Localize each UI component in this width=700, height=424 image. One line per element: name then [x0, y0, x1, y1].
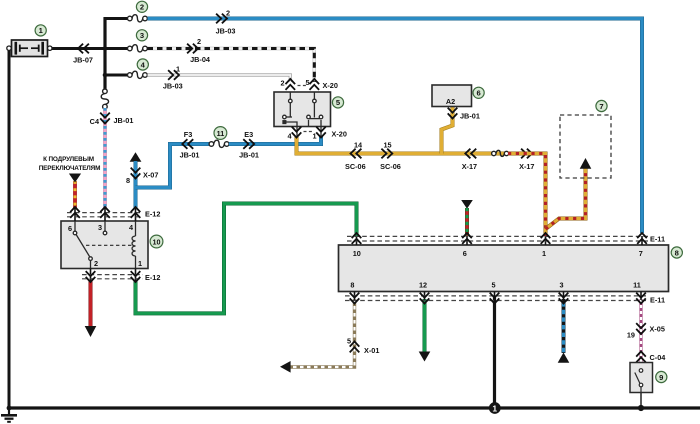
ground node 1 [489, 402, 501, 414]
wire white fuse F4 to X-20 pin2 [148, 75, 291, 82]
svg-text:C4: C4 [90, 117, 100, 126]
junction dot at left ground corner [7, 406, 12, 411]
svg-text:7: 7 [639, 249, 643, 258]
svg-text:10: 10 [153, 237, 161, 246]
circled number 3 [136, 30, 147, 41]
wire blue feed fuse F2 to pin7 (top run) [148, 19, 643, 234]
fuse F4 symbol [128, 71, 148, 78]
circled number 10 [150, 235, 163, 248]
svg-text:3: 3 [559, 281, 563, 290]
connector C-04 chevron [636, 352, 646, 363]
arrow below pin3 wire (points up) [558, 353, 570, 363]
svg-text:X-17: X-17 [519, 162, 534, 171]
wire pink-white stripe module pin11 to switch 9 [639, 299, 642, 363]
sensor A2 box 6 [432, 85, 472, 107]
arrow below green pin12 wire (points down) [419, 352, 431, 362]
svg-text:E-12: E-12 [145, 273, 160, 282]
svg-text:2: 2 [226, 9, 230, 18]
wire yellow-red stripe X-17 to module pin1 [508, 154, 546, 237]
dashed box 7 [560, 115, 611, 178]
svg-text:1: 1 [492, 403, 497, 413]
svg-text:X-07: X-07 [143, 171, 158, 180]
svg-text:JB-03: JB-03 [163, 82, 183, 91]
junction node at trunk/F3 [103, 46, 108, 51]
svg-text:К ПОДРУЛЕВЫМ: К ПОДРУЛЕВЫМ [43, 156, 94, 163]
connector X-17 right chevron [521, 149, 532, 159]
wire red relay pin2 to arrow [89, 280, 93, 327]
connector F3 JB-01 chevron [182, 139, 193, 149]
svg-text:1: 1 [312, 132, 316, 141]
fuse below trunk (C4 feed) [101, 89, 108, 109]
svg-text:SC-06: SC-06 [345, 162, 366, 171]
connector X-20 bottom row [292, 127, 302, 138]
svg-text:JB-04: JB-04 [190, 55, 211, 64]
circled number 9 [656, 371, 667, 382]
svg-text:JB-01: JB-01 [180, 151, 200, 160]
svg-text:1: 1 [176, 65, 180, 74]
switch 9 internals [635, 369, 643, 393]
circled number 11 [214, 127, 227, 140]
arrow X-07 off-page (points up) [130, 152, 142, 162]
module 8 box [339, 245, 669, 292]
wire branch to fuse F2 [104, 17, 129, 20]
wire branch to fuse F4 [105, 74, 128, 77]
svg-text:X-01: X-01 [364, 346, 379, 355]
connector 2 JB-04 chevron [187, 44, 198, 54]
svg-text:JB-03: JB-03 [216, 27, 236, 36]
svg-text:2: 2 [94, 259, 98, 268]
fuse 11 symbol [209, 140, 229, 147]
connector 19 X-05 chevron [636, 323, 646, 334]
arrow below relay pin2 (points down) [85, 326, 97, 337]
svg-text:8: 8 [350, 281, 354, 290]
switch 9 box [630, 363, 653, 393]
arrow into dashed box (points up) [580, 158, 592, 169]
wire branch to fuse F3 [105, 47, 128, 50]
switch 5 internals [283, 92, 323, 136]
junction node at trunk/F4 [103, 73, 108, 78]
wire battery positive to fuse trunk JB-07 [50, 47, 105, 50]
connector E-12 bottom row [82, 274, 143, 276]
svg-text:JB-01: JB-01 [460, 112, 480, 121]
svg-text:11: 11 [633, 281, 641, 290]
ignition switch unit 5 box [274, 92, 331, 127]
svg-text:3: 3 [98, 223, 102, 232]
svg-text:9: 9 [659, 373, 663, 382]
svg-text:2: 2 [140, 3, 144, 12]
wire blue E3 to X-20 pin1 [229, 136, 321, 144]
svg-text:E-12: E-12 [145, 210, 160, 219]
svg-text:10: 10 [353, 249, 361, 258]
connector 5 X-01 chevron [350, 342, 360, 353]
svg-text:E-11: E-11 [650, 235, 665, 244]
svg-text:ПЕРЕКЛЮЧАТЕЛЯМ: ПЕРЕКЛЮЧАТЕЛЯМ [39, 165, 101, 172]
svg-text:12: 12 [419, 281, 427, 290]
battery G1 box [12, 40, 48, 57]
wire switch 9 to ground bus [640, 390, 642, 408]
circled number 2 [136, 1, 147, 12]
svg-text:11: 11 [217, 129, 225, 138]
wire tan-white stripe module pin8 to left arrow [290, 299, 355, 367]
connector A2 JB-01 chevron [448, 108, 458, 119]
svg-text:5: 5 [305, 78, 309, 87]
wire red-yellow stripe to steering column switches [73, 181, 77, 209]
svg-text:E-11: E-11 [650, 296, 665, 305]
svg-text:JB-07: JB-07 [73, 56, 93, 65]
wire battery negative to ground (left edge) [8, 50, 11, 409]
wire green module pin12 down [423, 299, 427, 352]
arrow at end of tan wire (points left) [280, 361, 291, 373]
svg-text:C-04: C-04 [650, 353, 667, 362]
circled number 7 [596, 100, 607, 111]
svg-text:6: 6 [476, 89, 480, 98]
wire green relay pin1 to module pin10 [136, 204, 357, 314]
svg-text:5: 5 [347, 337, 351, 346]
connector JB-07 chevron [78, 44, 89, 54]
connector 2 JB-03 chevron on blue wire [216, 14, 227, 24]
arrow above module pin6 (points down) [461, 200, 473, 209]
svg-text:6: 6 [463, 249, 467, 258]
svg-text:7: 7 [599, 102, 603, 111]
wire yellow from A2 JB-01 down [442, 107, 453, 154]
circled number 4 [137, 59, 148, 70]
connector 15 SC-06 chevron [381, 149, 392, 159]
wire blue-black stripe module pin3 down [562, 299, 566, 353]
svg-text:JB-01: JB-01 [114, 116, 134, 125]
wire red-green stripe to module pin6 [465, 208, 469, 236]
svg-text:SC-06: SC-06 [380, 162, 401, 171]
wire black module pin5 to ground node [493, 296, 496, 406]
circled number 8 [671, 247, 682, 258]
wire blue X-07 stub to relay pin4 [134, 161, 138, 209]
svg-text:6: 6 [68, 224, 72, 233]
connector E-12 top row [67, 212, 143, 214]
svg-text:3: 3 [140, 31, 144, 40]
fuse F3 symbol [128, 45, 148, 52]
svg-text:JB-01: JB-01 [239, 151, 259, 160]
svg-text:19: 19 [627, 331, 635, 340]
circled number 6 [473, 87, 484, 98]
wire pink-blue stripe C4 JB-01 to relay pin3 [103, 108, 107, 209]
svg-text:8: 8 [675, 248, 679, 257]
svg-text:2: 2 [280, 79, 284, 88]
battery terminal circles [7, 46, 11, 50]
connector X-17 left chevron [465, 149, 476, 159]
connector E-11 bottom row [345, 295, 648, 297]
svg-text:8: 8 [126, 176, 130, 185]
wire white-black stripe fuse F3 to X-20 pin5 [148, 49, 315, 83]
svg-text:F3: F3 [184, 130, 193, 139]
connector E-11 top row [347, 235, 648, 237]
connector X-07 chevron [131, 168, 141, 179]
circled number 1 [35, 25, 46, 36]
circled number 5 [332, 97, 343, 108]
wire blue branch to fuse 11 line [136, 144, 210, 188]
wire fuse trunk vertical [103, 17, 106, 89]
svg-text:14: 14 [354, 141, 363, 150]
svg-text:X-20: X-20 [323, 81, 338, 90]
connector 1 JB-03 chevron [168, 70, 179, 80]
svg-text:X-05: X-05 [650, 325, 665, 334]
relay pin stubs black [75, 208, 136, 281]
svg-text:X-20: X-20 [332, 130, 347, 139]
connector E3 JB-01 chevron [243, 139, 254, 149]
svg-text:5: 5 [491, 281, 495, 290]
svg-text:15: 15 [383, 141, 391, 150]
connector C4 JB-01 chevron [100, 113, 110, 124]
svg-text:X-17: X-17 [462, 162, 477, 171]
connector 14 SC-06 chevron [351, 149, 362, 159]
svg-text:2: 2 [197, 37, 201, 46]
junction dot switch 9 ground [638, 405, 644, 411]
battery cells symbol [16, 42, 43, 55]
svg-text:A2: A2 [446, 97, 455, 106]
fuse F2 symbol [128, 15, 148, 22]
module 8 top pin stubs [357, 236, 643, 245]
module 8 bottom pin stubs [355, 292, 642, 301]
connector X-20 top row [286, 79, 296, 90]
splice symbol on yellow wire [492, 150, 509, 156]
ground bus wire [9, 406, 700, 409]
svg-text:1: 1 [138, 259, 142, 268]
ground [1, 408, 17, 422]
arrow to steering column switches (points down) [69, 174, 81, 183]
svg-text:E3: E3 [244, 130, 253, 139]
relay internals [73, 221, 135, 269]
svg-text:1: 1 [542, 249, 546, 258]
wire yellow-red stripe branch to arrow in dashed box [546, 167, 586, 229]
wire yellow X-20 pin4 to SC-06 run [297, 137, 510, 154]
relay 10 box [61, 221, 148, 269]
